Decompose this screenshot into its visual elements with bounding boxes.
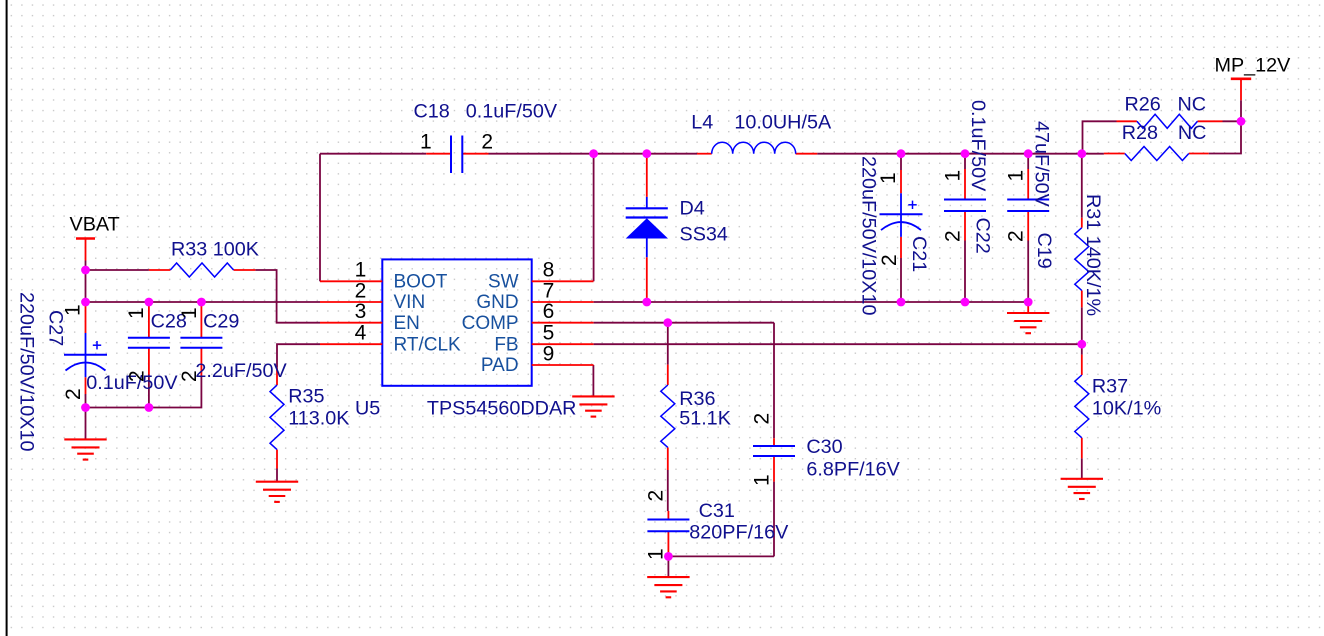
junction [197, 298, 206, 307]
C28 labels [86, 307, 187, 394]
ground (R37) [1061, 479, 1103, 499]
wire [668, 555, 774, 557]
wire [85, 408, 87, 440]
svg-text:NC: NC [1178, 122, 1207, 144]
junction [961, 298, 970, 307]
svg-text:3: 3 [355, 300, 367, 323]
junction [81, 298, 90, 307]
svg-text:2: 2 [942, 230, 965, 242]
C22 labels [942, 100, 994, 254]
svg-text:FB: FB [494, 334, 518, 355]
wire [1027, 154, 1029, 169]
junction [897, 298, 906, 307]
svg-text:C29: C29 [203, 310, 239, 332]
ground (U5 PAD) [572, 396, 614, 416]
junction [663, 318, 672, 327]
wire [964, 154, 966, 169]
wire [667, 323, 669, 365]
svg-text:GND: GND [476, 292, 518, 313]
svg-text:R26: R26 [1125, 94, 1161, 116]
svg-text:10.0UH/5A: 10.0UH/5A [734, 111, 832, 133]
svg-text:2: 2 [878, 254, 901, 266]
capacitor C19 [1007, 169, 1049, 241]
wire [1081, 344, 1083, 354]
wire [594, 343, 1082, 345]
svg-text:BOOT: BOOT [394, 271, 448, 292]
resistor R37 [1075, 355, 1161, 459]
resistor R31 [1075, 194, 1104, 316]
wire [817, 153, 1104, 155]
svg-text:51.1K: 51.1K [679, 408, 731, 430]
wire [1240, 100, 1242, 121]
wire [646, 154, 648, 158]
svg-text:820PF/16V: 820PF/16V [689, 522, 789, 544]
svg-text:2: 2 [126, 370, 149, 382]
svg-text:L4: L4 [691, 111, 713, 133]
svg-text:6: 6 [543, 300, 555, 323]
svg-text:VBAT: VBAT [70, 214, 120, 236]
U5 reference and part number [355, 397, 576, 419]
wire [773, 482, 775, 557]
svg-text:1: 1 [1005, 170, 1028, 182]
svg-text:C18: C18 [414, 101, 450, 123]
svg-text:SW: SW [488, 271, 519, 292]
wire [86, 376, 202, 408]
resistor R33 [149, 239, 259, 278]
capacitor C31 [647, 511, 689, 556]
inductor L4 [691, 111, 832, 153]
resistor R35 [270, 368, 349, 469]
svg-text:R36: R36 [679, 388, 715, 410]
wire [86, 269, 149, 271]
wire [1027, 241, 1029, 303]
C30 labels [751, 413, 901, 486]
ground stem (C19) [1027, 302, 1029, 313]
junction [589, 149, 598, 158]
wire [667, 556, 669, 577]
svg-text:220uF/50V/10X10: 220uF/50V/10X10 [16, 292, 38, 451]
wire [592, 365, 594, 396]
wire [594, 301, 1029, 303]
wire [320, 153, 426, 155]
ground (C19) [1007, 313, 1049, 333]
wire [276, 469, 278, 482]
svg-text:0.1uF/50V: 0.1uF/50V [466, 101, 558, 123]
svg-text:7: 7 [543, 279, 555, 302]
svg-text:D4: D4 [680, 198, 705, 220]
wire [255, 270, 320, 323]
diode D4 SS34 [626, 158, 728, 302]
svg-text:4: 4 [355, 322, 367, 345]
svg-text:1: 1 [645, 548, 668, 560]
wire [900, 258, 902, 302]
resistor R26 (NC) [1117, 94, 1223, 129]
wire [594, 153, 697, 155]
svg-text:1: 1 [355, 259, 367, 282]
junction [642, 298, 651, 307]
svg-text:2: 2 [481, 131, 493, 154]
wire [85, 394, 87, 408]
svg-text:10K/1%: 10K/1% [1092, 397, 1161, 419]
wire [85, 270, 87, 302]
wire [1223, 120, 1242, 122]
svg-text:47uF/50V: 47uF/50V [1031, 121, 1053, 208]
junction [961, 149, 970, 158]
wire [1083, 121, 1117, 153]
svg-text:1: 1 [751, 474, 774, 486]
wire [593, 154, 595, 282]
svg-text:2: 2 [355, 279, 367, 302]
svg-text:COMP: COMP [462, 313, 519, 334]
power port MP_12V [1215, 55, 1292, 101]
C21 labels [858, 156, 931, 315]
power port VBAT [70, 214, 120, 261]
wire [489, 153, 594, 155]
U5 pin numbers [355, 259, 555, 366]
junction [642, 149, 651, 158]
wire [594, 322, 774, 324]
svg-text:8: 8 [543, 259, 555, 282]
wire [85, 261, 87, 271]
svg-text:2: 2 [751, 413, 774, 425]
svg-text:R35: R35 [288, 385, 324, 407]
wire [1081, 307, 1083, 344]
junction [1237, 117, 1246, 126]
svg-text:1: 1 [125, 307, 148, 319]
C29 labels [178, 307, 287, 382]
wire [900, 154, 902, 170]
svg-text:R31 140K/1%: R31 140K/1% [1082, 194, 1104, 316]
svg-text:PAD: PAD [481, 355, 519, 376]
wire [277, 344, 320, 368]
svg-text:NC: NC [1178, 94, 1207, 116]
U5 pin names [394, 271, 519, 376]
capacitor C27 (electrolytic) [64, 302, 107, 394]
capacitor C21 (electrolytic) [880, 170, 923, 258]
C31 labels [645, 490, 790, 560]
svg-text:TPS54560DDAR: TPS54560DDAR [427, 397, 577, 419]
wire [319, 154, 321, 282]
svg-text:R33 100K: R33 100K [171, 239, 259, 261]
svg-text:RT/CLK: RT/CLK [394, 334, 462, 355]
wire [86, 301, 321, 303]
junction [897, 149, 906, 158]
wire [1081, 458, 1083, 478]
svg-text:SS34: SS34 [680, 224, 728, 246]
svg-text:C21: C21 [908, 236, 930, 272]
svg-text:R37: R37 [1092, 375, 1128, 397]
junction [1024, 149, 1033, 158]
wire [964, 241, 966, 303]
C19 labels [1005, 121, 1056, 269]
svg-text:1: 1 [877, 172, 900, 184]
svg-text:2: 2 [178, 370, 201, 382]
junction [664, 552, 673, 561]
capacitor C22 [944, 169, 986, 241]
svg-text:2: 2 [645, 490, 668, 502]
capacitor C18 [414, 101, 558, 173]
svg-text:R28: R28 [1122, 122, 1158, 144]
capacitor C30 [753, 438, 795, 481]
sheet border line [6, 0, 8, 636]
junction [145, 403, 154, 412]
svg-text:5: 5 [543, 322, 555, 345]
junction [1077, 340, 1086, 349]
svg-text:VIN: VIN [394, 292, 426, 313]
wire [1081, 154, 1083, 218]
junction [1024, 298, 1033, 307]
svg-text:0.1uF/50V: 0.1uF/50V [967, 100, 989, 192]
junction [145, 298, 154, 307]
ground (C31) [647, 577, 689, 597]
wire [1209, 121, 1241, 153]
svg-text:2.2uF/50V: 2.2uF/50V [195, 360, 287, 382]
wire [667, 470, 669, 511]
resistor R36 [661, 365, 731, 470]
wire [148, 375, 150, 408]
svg-text:2: 2 [62, 388, 85, 400]
svg-text:1: 1 [178, 307, 201, 319]
junction [81, 266, 90, 275]
svg-text:C22: C22 [972, 218, 994, 254]
C27 labels [16, 292, 86, 451]
junction [1077, 149, 1086, 158]
wire [773, 323, 775, 439]
svg-text:1: 1 [62, 304, 85, 316]
svg-text:C31: C31 [699, 500, 735, 522]
svg-text:9: 9 [543, 342, 555, 365]
svg-text:2: 2 [1005, 230, 1028, 242]
svg-text:113.0K: 113.0K [288, 407, 349, 429]
svg-text:C30: C30 [806, 436, 842, 458]
capacitor C28 [128, 303, 170, 375]
svg-text:EN: EN [394, 313, 420, 334]
junction [81, 403, 90, 412]
svg-text:C19: C19 [1033, 233, 1055, 269]
svg-text:MP_12V: MP_12V [1215, 55, 1292, 77]
svg-text:U5: U5 [355, 397, 380, 419]
op-amp U5 TPS54560DDAR body [320, 259, 594, 385]
capacitor C29 [180, 303, 222, 376]
svg-text:1: 1 [942, 170, 965, 182]
svg-text:6.8PF/16V: 6.8PF/16V [806, 458, 900, 480]
svg-text:1: 1 [420, 131, 432, 154]
ground (C27) [64, 439, 106, 459]
resistor R28 (NC) [1104, 122, 1209, 161]
ground (R35) [256, 482, 298, 502]
